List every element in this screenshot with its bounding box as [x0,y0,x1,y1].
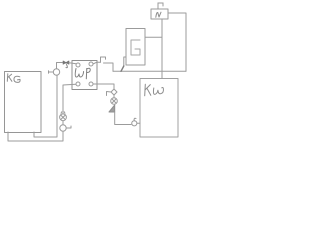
label N [156,12,161,17]
wire G left to bus with tick [124,57,126,66]
label WP [75,69,83,78]
box G (generator) [126,29,145,66]
label G [131,40,140,55]
circulator circle C1 [53,69,59,75]
port WP bottom-left [76,82,80,86]
label KG [7,74,12,82]
wire P1 up to WP bottom-left [63,84,76,114]
pump P2 (circle with cross) [111,98,118,105]
box WP (heat pump) [72,61,97,90]
switch S1 [101,57,106,62]
wire N right to right riser [168,13,186,71]
box KG (cold source) [5,72,42,133]
valve V2 with handle [60,125,66,131]
gauge with curl [132,121,137,126]
wire V2 to pump P1 [62,121,64,125]
main bus wire [113,70,186,72]
box KW (heat consumer) [140,79,178,138]
valve V1 (dark) [63,61,69,64]
wire KG bottom port to pump column [8,131,63,141]
drip loop under V1 [66,65,67,68]
port WP top-right [89,62,93,66]
port WP bottom-right [89,82,93,86]
wire D1 to pump P2 [113,95,115,98]
box N (grid) [151,9,168,19]
wire C1 up to valve [57,63,63,69]
wire N bottom down to KW top [161,19,163,79]
stub left of C1 [49,71,54,73]
wire WP top-right to switch [93,62,101,64]
pump P1 (circle with cross) [60,114,67,121]
branch stub at D1 [107,92,112,96]
antenna above N [158,3,163,9]
wire KG top port to riser [34,75,57,137]
port WP top-left [76,63,80,67]
check valve flag [109,105,115,112]
wire V1 to WP [69,63,76,64]
wire G right to N drop [145,36,162,38]
label KW [145,84,151,96]
wire WP bottom-right to right column [93,84,114,89]
wire gauge to KW box [137,122,140,124]
wire switch to junction [104,63,114,71]
diamond valve D1 [111,89,117,95]
wire down and right to KW [115,112,131,125]
